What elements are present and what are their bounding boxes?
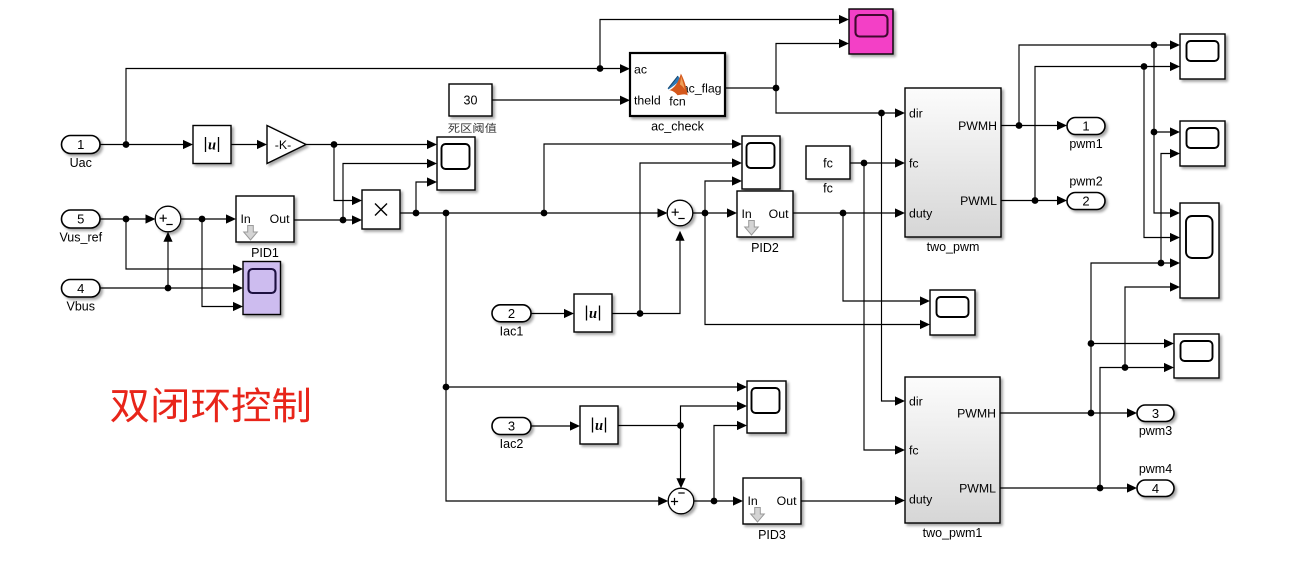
wire PWML to pwm4 — [1000, 487, 1130, 489]
junction — [1016, 122, 1023, 129]
svg-text:u: u — [595, 418, 603, 434]
wire Vus_ref to sum1 — [100, 218, 148, 220]
svg-text:two_pwm: two_pwm — [927, 240, 980, 254]
wire PID3 to two_pwm1 duty — [801, 500, 898, 502]
wire |u| to sum2 minus — [612, 238, 680, 314]
output port 3 pwm3 — [1137, 405, 1174, 438]
wire ac_flag to Scope_m in2 — [776, 44, 842, 89]
wire PID1 to product in2 — [294, 219, 355, 221]
wire PID2 to two_pwm duty — [793, 212, 898, 214]
svg-text:3: 3 — [1152, 406, 1159, 421]
wire Vbus to Scope_p in2 — [100, 287, 236, 289]
wire sum1 to PID1 — [181, 218, 229, 220]
wire sum1 to Scope_p in3 — [202, 219, 236, 307]
output port 2 pwm2 — [1067, 175, 1105, 210]
wire pwm3 to Scope6 in2 — [1161, 154, 1173, 264]
label 死区阈值 — [448, 123, 496, 133]
wire sum2 to Scope4 in2 — [705, 213, 923, 325]
wire 30 to theld — [492, 99, 623, 101]
svg-text:1: 1 — [77, 137, 84, 152]
scope block Scope1 — [437, 137, 475, 190]
constant block fc — [806, 146, 850, 196]
junction — [443, 210, 450, 217]
wire pwm3 to Scope7 in3 — [1091, 263, 1173, 413]
svg-text:pwm2: pwm2 — [1069, 175, 1102, 189]
svg-text:ac: ac — [634, 62, 647, 76]
svg-text:PWMH: PWMH — [957, 406, 996, 420]
scope block Scope_m magenta — [849, 9, 893, 54]
scope block Scope8 — [1174, 334, 1219, 378]
svg-text:dir: dir — [909, 394, 923, 408]
junction — [677, 422, 684, 429]
junction — [413, 210, 420, 217]
junction — [1088, 410, 1095, 417]
wire Vus_ref to Scope_p in1 — [126, 219, 236, 269]
wire Iac2 to Scope3 in2 — [681, 406, 741, 426]
junction — [1097, 485, 1104, 492]
sum block Add (Vus) — [155, 206, 181, 232]
svg-text:30: 30 — [464, 94, 478, 108]
svg-text:ac_check: ac_check — [651, 120, 705, 134]
scope block Scope2 — [742, 136, 780, 189]
wire sum2 to Scope2 in3 — [705, 181, 735, 213]
wire Uac to ac_check ac — [126, 69, 623, 145]
wire fc to two_pwm1 fc — [864, 163, 898, 450]
wire gain to product in1 — [334, 145, 355, 201]
svg-text:-K-: -K- — [275, 138, 291, 152]
input port 1 Uac — [62, 136, 101, 171]
gain block -K- — [267, 126, 306, 164]
junction — [702, 210, 709, 217]
wire pwm1 to Scope6 in1 — [1154, 131, 1173, 133]
input port 5 Vus_ref — [59, 210, 102, 245]
junction — [199, 216, 206, 223]
junction — [637, 310, 644, 317]
svg-text:Vbus: Vbus — [67, 300, 96, 314]
junction — [1122, 364, 1129, 371]
sum block Add2 (Iac2) — [668, 488, 694, 514]
wire product to sum3 plus — [446, 213, 661, 501]
wire Iac2 to sum3 minus — [680, 426, 682, 482]
svg-text:Out: Out — [270, 212, 290, 226]
svg-text:duty: duty — [909, 206, 933, 220]
wire ac_flag — [725, 87, 776, 89]
svg-text:Iac1: Iac1 — [500, 324, 524, 338]
wire pwm4 to Scope7 in4 — [1125, 287, 1173, 368]
svg-text:2: 2 — [1082, 194, 1089, 209]
wire sum3 to PID3 — [694, 500, 736, 502]
annotation 双闭环控制 — [111, 387, 309, 422]
scope block Scope6 — [1180, 121, 1225, 166]
wire sum2 to PID2 — [693, 212, 730, 214]
wire ac to Scope_m in1 — [600, 20, 842, 69]
input port 3 Iac2 — [492, 418, 531, 452]
svg-text:u: u — [208, 138, 216, 154]
wire PWMH to pwm1 — [1001, 125, 1060, 127]
junction — [1158, 260, 1165, 267]
svg-text:pwm4: pwm4 — [1139, 462, 1172, 476]
subsystem PID2 — [737, 191, 793, 255]
junction — [861, 160, 868, 167]
wire pwm3 to Scope8 in1 — [1091, 343, 1167, 345]
wire Vbus to sum1 minus — [167, 240, 169, 288]
svg-text:3: 3 — [508, 419, 515, 434]
svg-text:u: u — [589, 306, 597, 322]
svg-text:fc: fc — [909, 156, 919, 170]
subsystem PID3 — [743, 478, 801, 542]
svg-text:Out: Out — [769, 207, 789, 221]
scope block Scope4 — [930, 290, 975, 335]
wire fc to two_pwm fc — [850, 162, 898, 164]
junction — [711, 498, 718, 505]
wire Iac2 to |u| — [531, 425, 573, 427]
abs block |u| Abs — [193, 126, 231, 164]
svg-text:fc: fc — [823, 182, 833, 196]
wire PID1 to Scope1 in2 — [343, 164, 430, 221]
wire Uac to |u| — [99, 144, 186, 146]
wire |u| Iac2 — [618, 425, 681, 427]
wire Iac1 to |u| — [531, 313, 567, 315]
svg-text:In: In — [742, 207, 752, 221]
wire pwm1 to Scope7 in1 — [1154, 45, 1173, 213]
svg-text:In: In — [748, 494, 758, 508]
subsystem PID1 — [236, 196, 294, 260]
wire Iac1 to Scope2 in2 — [640, 163, 735, 314]
svg-text:fcn: fcn — [669, 95, 686, 109]
scope block Scope7 — [1180, 203, 1219, 298]
output port 4 pwm4 — [1137, 462, 1174, 497]
svg-text:1: 1 — [1082, 119, 1089, 134]
junction — [1141, 63, 1148, 70]
junction — [597, 65, 604, 72]
svg-text:duty: duty — [909, 492, 933, 506]
svg-text:pwm1: pwm1 — [1069, 137, 1102, 151]
constant block 30 — [449, 84, 492, 116]
scope block Scope5 — [1180, 34, 1225, 79]
svg-text:5: 5 — [77, 212, 84, 227]
input port 4 Vbus — [62, 280, 101, 314]
wire pwm2 to Scope7 in2 — [1144, 67, 1173, 238]
junction — [123, 141, 130, 148]
product block Product — [362, 190, 400, 229]
wire sum3 to Scope3 in3 — [714, 426, 740, 502]
svg-text:4: 4 — [77, 281, 84, 296]
junction — [1151, 42, 1158, 49]
wire product to Scope3 in1 — [446, 386, 740, 388]
svg-text:PWML: PWML — [959, 481, 996, 495]
wire gain to Scope1 in1 — [306, 144, 430, 146]
wire PWMH to pwm3 — [1000, 412, 1130, 414]
svg-text:theld: theld — [634, 94, 661, 108]
svg-text:PID3: PID3 — [758, 528, 786, 542]
input port 2 Iac1 — [492, 305, 531, 339]
wire |u| to gain — [231, 144, 260, 146]
svg-text:ac_flag: ac_flag — [682, 82, 722, 96]
svg-text:PWMH: PWMH — [958, 119, 997, 133]
wire PWML to pwm2 — [1001, 200, 1060, 202]
svg-text:In: In — [241, 212, 251, 226]
junction — [1032, 197, 1039, 204]
svg-text:pwm3: pwm3 — [1139, 424, 1172, 438]
junction — [541, 210, 548, 217]
subsystem two_pwm — [905, 88, 1001, 254]
wire PWMH to Scope5 in1 — [1019, 45, 1173, 126]
abs block |u| Abs1 — [574, 294, 612, 332]
svg-text:Vus_ref: Vus_ref — [59, 231, 102, 245]
junction — [1088, 340, 1095, 347]
junction — [1151, 129, 1158, 136]
wire product to sum2 — [400, 212, 661, 214]
MATLAB function block ac_check — [630, 53, 725, 134]
wire PWML to Scope5 in2 — [1035, 67, 1173, 201]
svg-text:Iac2: Iac2 — [500, 437, 524, 451]
svg-text:Out: Out — [777, 494, 797, 508]
svg-text:4: 4 — [1152, 481, 1159, 496]
wire PID2 to Scope4 in1 — [843, 213, 923, 301]
junction — [840, 210, 847, 217]
wire ac_flag to two_pwm1 dir — [882, 113, 899, 401]
scope block Scope_p purple — [243, 262, 281, 315]
junction — [123, 216, 130, 223]
svg-text:two_pwm1: two_pwm1 — [923, 526, 983, 540]
junction — [878, 110, 885, 117]
svg-text:dir: dir — [909, 106, 923, 120]
sum block Add1 (Iac1) — [667, 200, 693, 226]
wire product to Scope2 in1 — [544, 144, 735, 213]
junction — [340, 217, 347, 224]
svg-text:fc: fc — [823, 157, 833, 171]
junction — [773, 85, 780, 92]
junction — [165, 285, 172, 292]
subsystem two_pwm1 — [905, 377, 1000, 540]
junction — [443, 384, 450, 391]
svg-text:PID2: PID2 — [751, 241, 779, 255]
svg-text:2: 2 — [508, 306, 515, 321]
wire pwm4 to Scope8 in2 — [1100, 368, 1167, 489]
svg-text:PWML: PWML — [960, 194, 997, 208]
svg-text:Uac: Uac — [70, 156, 92, 170]
svg-text:fc: fc — [909, 443, 919, 457]
wire ac_flag to two_pwm dir — [776, 88, 898, 113]
scope block Scope3 — [747, 381, 786, 433]
wire product to Scope1 in3 — [416, 182, 430, 213]
output port 1 pwm1 — [1067, 118, 1105, 152]
abs block |u| Abs2 — [580, 406, 618, 444]
svg-text:PID1: PID1 — [251, 246, 279, 260]
junction — [331, 141, 338, 148]
